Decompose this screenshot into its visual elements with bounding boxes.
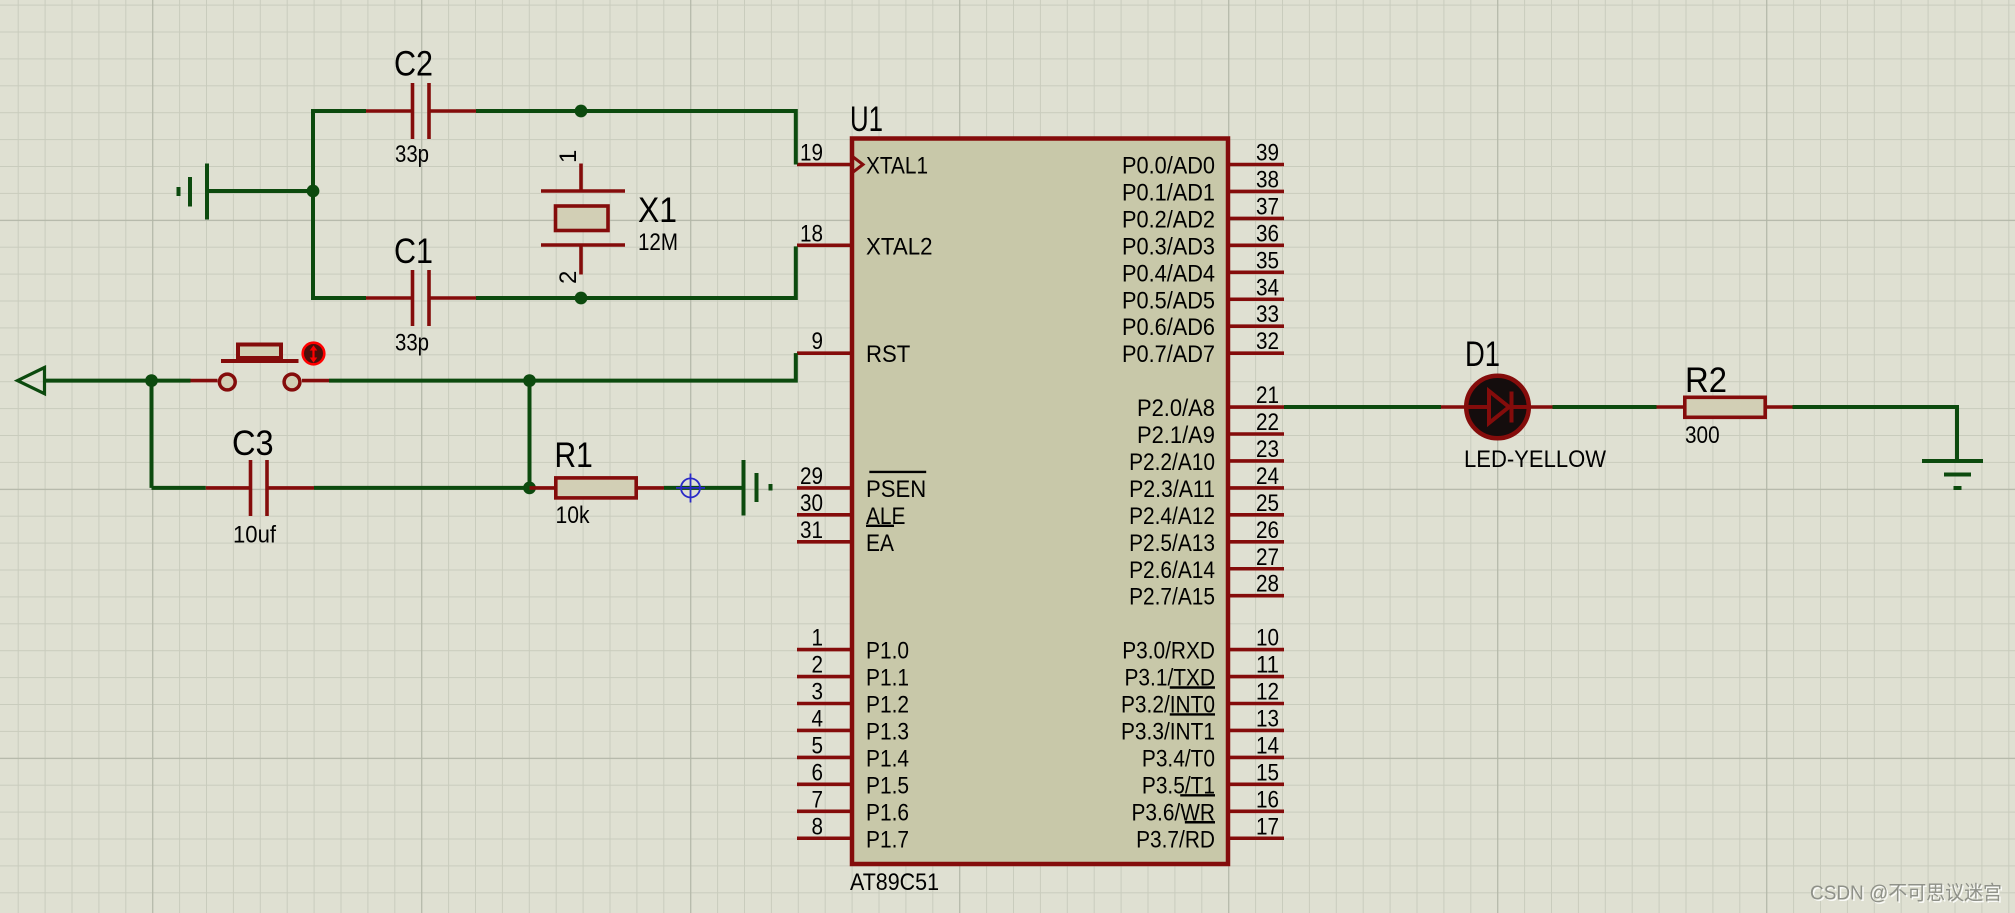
svg-text:CSDN @不可思议迷宫: CSDN @不可思议迷宫 [1810,882,2002,905]
svg-text:10k: 10k [556,502,591,529]
svg-text:24: 24 [1256,463,1279,490]
svg-text:P0.0/AD0: P0.0/AD0 [1122,153,1215,180]
svg-text:EA: EA [866,530,894,557]
svg-text:P0.1/AD1: P0.1/AD1 [1122,179,1215,206]
svg-text:7: 7 [812,786,824,813]
svg-text:26: 26 [1256,517,1279,544]
svg-text:C2: C2 [394,45,433,84]
svg-text:P1.1: P1.1 [866,665,909,692]
svg-text:P3.0/RXD: P3.0/RXD [1122,638,1215,665]
svg-text:AT89C51: AT89C51 [850,869,939,896]
svg-text:P1.0: P1.0 [866,638,909,665]
svg-text:P0.6/AD6: P0.6/AD6 [1122,314,1215,341]
svg-text:P0.2/AD2: P0.2/AD2 [1122,206,1215,233]
svg-text:12M: 12M [638,229,678,256]
svg-text:P2.1/A9: P2.1/A9 [1137,422,1215,449]
svg-text:34: 34 [1256,274,1279,301]
svg-text:33: 33 [1256,301,1279,328]
svg-text:P3.3/INT1: P3.3/INT1 [1121,718,1215,745]
svg-text:31: 31 [800,517,823,544]
svg-text:300: 300 [1685,422,1720,449]
svg-text:16: 16 [1256,786,1279,813]
svg-text:P0.3/AD3: P0.3/AD3 [1122,233,1215,260]
svg-text:35: 35 [1256,247,1279,274]
svg-text:RST: RST [866,341,911,368]
svg-text:18: 18 [800,220,823,247]
svg-text:39: 39 [1256,140,1279,167]
svg-text:1: 1 [555,150,582,163]
svg-text:37: 37 [1256,193,1279,220]
svg-text:11: 11 [1256,652,1279,679]
svg-text:10uf: 10uf [233,522,276,549]
svg-text:38: 38 [1256,166,1279,193]
svg-text:P1.4: P1.4 [866,745,909,772]
svg-text:12: 12 [1256,679,1279,706]
svg-text:P1.2: P1.2 [866,692,909,719]
svg-text:2: 2 [812,652,824,679]
svg-text:P1.6: P1.6 [866,799,909,826]
svg-text:33p: 33p [395,141,429,168]
svg-text:36: 36 [1256,220,1279,247]
svg-text:17: 17 [1256,813,1279,840]
svg-text:4: 4 [812,705,824,732]
svg-text:1: 1 [812,625,824,652]
svg-text:33p: 33p [395,330,429,357]
svg-text:U1: U1 [850,100,883,139]
svg-text:PSEN: PSEN [866,476,926,503]
svg-text:D1: D1 [1465,335,1500,374]
svg-text:19: 19 [800,140,823,167]
svg-text:25: 25 [1256,490,1279,517]
svg-text:R2: R2 [1685,361,1727,400]
svg-text:P0.7/AD7: P0.7/AD7 [1122,341,1215,368]
svg-text:P1.5: P1.5 [866,772,909,799]
svg-text:C1: C1 [394,232,433,271]
svg-text:P3.4/T0: P3.4/T0 [1142,745,1215,772]
svg-text:P0.4/AD4: P0.4/AD4 [1122,260,1215,287]
svg-text:C3: C3 [232,424,274,463]
svg-text:21: 21 [1256,382,1279,409]
svg-text:P0.5/AD5: P0.5/AD5 [1122,287,1215,314]
svg-text:P2.6/A14: P2.6/A14 [1129,557,1215,584]
svg-text:8: 8 [812,813,824,840]
svg-text:P1.3: P1.3 [866,718,909,745]
svg-text:2: 2 [555,271,582,284]
svg-text:30: 30 [800,490,823,517]
svg-text:XTAL2: XTAL2 [866,233,933,260]
svg-text:14: 14 [1256,732,1279,759]
svg-text:P2.4/A12: P2.4/A12 [1129,503,1215,530]
svg-text:6: 6 [812,759,824,786]
svg-text:9: 9 [812,328,824,355]
svg-text:P2.3/A11: P2.3/A11 [1129,476,1215,503]
svg-text:P3.7/RD: P3.7/RD [1136,826,1215,853]
svg-text:22: 22 [1256,409,1279,436]
svg-text:29: 29 [800,463,823,490]
svg-text:P2.0/A8: P2.0/A8 [1137,395,1215,422]
svg-text:R1: R1 [555,436,593,475]
svg-text:3: 3 [812,679,824,706]
svg-text:15: 15 [1256,759,1279,786]
svg-text:32: 32 [1256,328,1279,355]
svg-text:P2.5/A13: P2.5/A13 [1129,530,1215,557]
svg-text:23: 23 [1256,436,1279,463]
svg-text:X1: X1 [638,191,677,230]
svg-text:28: 28 [1256,571,1279,598]
svg-text:XTAL1: XTAL1 [866,153,928,180]
svg-text:P2.2/A10: P2.2/A10 [1129,449,1215,476]
svg-text:P2.7/A15: P2.7/A15 [1129,584,1215,611]
svg-text:10: 10 [1256,625,1279,652]
svg-text:13: 13 [1256,705,1279,732]
svg-text:27: 27 [1256,544,1279,571]
svg-text:5: 5 [812,732,824,759]
svg-text:P1.7: P1.7 [866,826,909,853]
svg-text:LED-YELLOW: LED-YELLOW [1464,446,1606,473]
